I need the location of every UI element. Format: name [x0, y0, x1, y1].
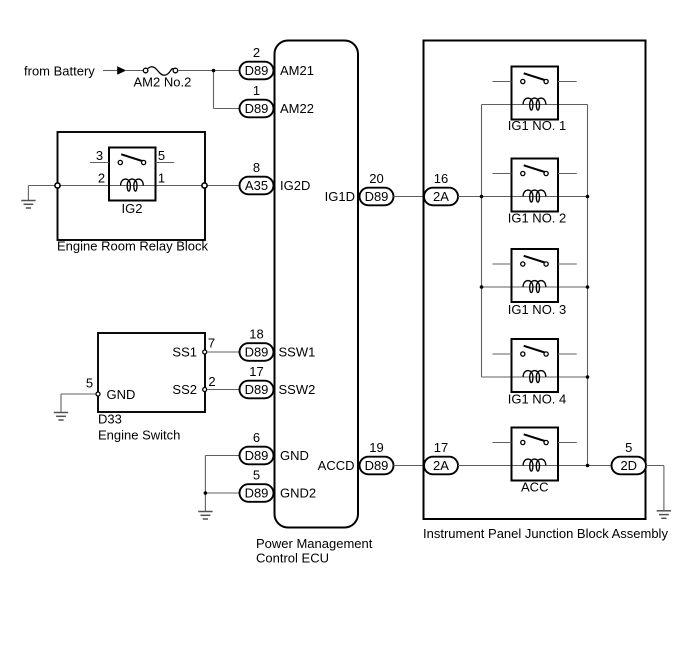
svg-text:IG1 NO. 3: IG1 NO. 3 — [508, 302, 567, 317]
wire: fuse to D89 pin2, branch to pin1 — [178, 71, 239, 109]
pin name labels inside ECU — [279, 63, 356, 501]
relay IG1 NO. 2: coil — [523, 190, 546, 202]
relay ACC: switch contacts and blade — [521, 434, 549, 444]
connector D89 pin 20 (IG1D) — [360, 171, 394, 205]
node: SS2 terminal, pin 2 — [203, 374, 216, 392]
svg-text:2A: 2A — [433, 458, 449, 473]
wire: IG1 NO. 2 switch stubs — [493, 173, 577, 175]
wire: IG1 NO. 4 switch stubs — [493, 353, 577, 355]
relay IG1 NO. 2: switch contacts and blade — [521, 165, 549, 175]
labels inside engine switch — [107, 345, 198, 403]
relay IG1 NO. 4: switch contacts and blade — [521, 346, 549, 356]
svg-text:Engine Switch: Engine Switch — [98, 428, 180, 443]
svg-text:D89: D89 — [245, 448, 269, 463]
block: Instrument Panel Junction Block Assembly — [423, 41, 668, 542]
svg-text:2D: 2D — [620, 458, 637, 473]
fuse AM2 No.2 — [143, 67, 177, 75]
connector D89 pin 5 (GND2) — [240, 468, 274, 502]
svg-text:GND2: GND2 — [280, 486, 316, 501]
svg-text:SSW1: SSW1 — [279, 345, 316, 360]
relay IG1 NO. 3: coil — [523, 281, 546, 293]
svg-text:ACCD: ACCD — [318, 458, 355, 473]
relay IG1 NO. 4: coil — [523, 371, 546, 383]
svg-text:IG2: IG2 — [122, 201, 143, 216]
wire: SS1 to D89 pin 18 — [207, 351, 239, 353]
svg-text:2: 2 — [253, 45, 260, 60]
wire: battery feed with arrow — [103, 66, 143, 75]
wire: ACC switch stubs — [493, 442, 577, 444]
svg-text:D89: D89 — [245, 486, 269, 501]
svg-text:IG1 NO. 1: IG1 NO. 1 — [508, 118, 567, 133]
wire: ACCD to 2A — [394, 465, 425, 467]
svg-text:SS2: SS2 — [172, 382, 197, 397]
wire: IG1 NO.2 coil row — [458, 196, 588, 198]
svg-text:GND: GND — [107, 387, 136, 402]
node: junction — [212, 69, 216, 73]
svg-text:IG1D: IG1D — [325, 189, 355, 204]
svg-text:D89: D89 — [245, 382, 269, 397]
wire: IG1D to 2A — [394, 196, 425, 198]
label IG2 and pin numbers 3 5 2 1 — [96, 148, 165, 216]
svg-text:5: 5 — [158, 148, 165, 163]
svg-text:IG1 NO. 4: IG1 NO. 4 — [508, 392, 567, 407]
node: relay block left terminal — [55, 183, 60, 188]
svg-text:2: 2 — [208, 374, 215, 389]
connector D89 pin 2 (AM21) — [240, 45, 274, 79]
wire: IG2 switch stubs — [90, 162, 174, 164]
node: GND terminal, pin 5 — [86, 376, 100, 397]
svg-text:2: 2 — [98, 171, 105, 186]
wire: IG1 coil bus (left) — [481, 105, 483, 378]
svg-text:D89: D89 — [245, 63, 269, 78]
svg-text:Instrument Panel Junction Bloc: Instrument Panel Junction Block Assembly — [423, 526, 668, 541]
connector 2A pin 17 — [424, 440, 458, 474]
block: Engine Room Relay Block — [57, 132, 209, 254]
svg-text:IG1 NO. 2: IG1 NO. 2 — [508, 211, 567, 226]
svg-text:19: 19 — [369, 440, 383, 455]
connector A35 pin 8 (IG2D) — [240, 160, 274, 194]
wire: 2D to ground — [646, 465, 664, 467]
relay IG1 NO. 1: coil — [523, 98, 546, 110]
relay IG1 NO. 1: case — [512, 67, 559, 120]
svg-text:5: 5 — [86, 376, 93, 391]
wire: SS2 to D89 pin 17 — [207, 389, 239, 391]
svg-text:D33: D33 — [98, 412, 122, 427]
svg-text:D89: D89 — [245, 101, 269, 116]
connector D89 pin 1 (AM22) — [240, 83, 274, 117]
svg-text:20: 20 — [369, 171, 383, 186]
svg-text:SSW2: SSW2 — [279, 382, 316, 397]
connector D89 pin 6 (GND) — [240, 430, 274, 464]
wire: coil bus (right) to 2D — [587, 105, 589, 466]
svg-text:D89: D89 — [245, 345, 269, 360]
svg-text:7: 7 — [208, 336, 215, 351]
svg-text:GND: GND — [280, 448, 309, 463]
wire: IG1 NO. 3 switch stubs — [493, 263, 577, 265]
svg-text:Power Management: Power Management — [256, 536, 373, 551]
svg-text:1: 1 — [158, 171, 165, 186]
node: SS1 terminal, pin 7 — [203, 336, 215, 355]
connector D89 pin 18 (SSW1) — [240, 327, 274, 361]
wire: ground to relay block — [28, 185, 57, 187]
svg-text:D89: D89 — [365, 458, 389, 473]
relay ACC: coil — [523, 459, 546, 471]
ground (ECU) — [198, 512, 212, 520]
svg-text:1: 1 — [253, 83, 260, 98]
wire: IG1 NO.4 coil row — [482, 376, 588, 378]
ground (engine room relay block) — [21, 186, 35, 209]
wire: GND / GND2 to ground — [205, 456, 239, 512]
wire: IG1 NO. 1 switch stubs — [493, 81, 577, 83]
svg-text:18: 18 — [249, 327, 263, 342]
node: bus junctions — [480, 195, 590, 468]
wire: GND to ground — [61, 393, 95, 395]
relay ACC: case — [512, 428, 559, 481]
wire: ACC coil row — [458, 465, 612, 467]
connector D89 pin 17 (SSW2) — [240, 364, 274, 398]
svg-text:AM22: AM22 — [280, 101, 314, 116]
svg-text:3: 3 — [96, 148, 103, 163]
svg-text:Engine Room Relay Block: Engine Room Relay Block — [57, 239, 209, 254]
svg-text:D89: D89 — [365, 189, 389, 204]
svg-text:AM2 No.2: AM2 No.2 — [134, 75, 192, 90]
block: Engine Switch D33 — [98, 333, 205, 443]
svg-text:5: 5 — [253, 468, 260, 483]
wire: IG1 NO.3 coil row — [482, 286, 588, 288]
svg-text:Control ECU: Control ECU — [256, 551, 329, 566]
relay IG2: case — [109, 148, 156, 201]
connector 2D pin 5 — [612, 440, 647, 474]
relay IG1 NO. 3: switch contacts and blade — [521, 256, 549, 266]
svg-text:A35: A35 — [245, 178, 268, 193]
ground (engine switch) — [54, 394, 68, 420]
connector D89 pin 19 (ACCD) — [360, 440, 394, 474]
svg-text:IG2D: IG2D — [280, 178, 310, 193]
node: junction — [204, 491, 208, 495]
svg-text:17: 17 — [249, 364, 263, 379]
ECU: Power Management Control ECU case — [256, 41, 373, 566]
svg-text:5: 5 — [625, 440, 632, 455]
svg-text:AM21: AM21 — [280, 63, 314, 78]
svg-text:ACC: ACC — [521, 480, 548, 495]
relay IG1 NO. 2: case — [512, 159, 559, 212]
wire: IG1 NO.1 coil row — [482, 104, 588, 106]
relay IG1 NO. 3: case — [512, 249, 559, 302]
relay IG1 NO. 4: case — [512, 339, 559, 392]
connector 2A pin 16 — [424, 171, 458, 205]
svg-text:SS1: SS1 — [172, 345, 197, 360]
svg-text:6: 6 — [253, 430, 260, 445]
svg-text:17: 17 — [434, 440, 448, 455]
wire: IG2 coil feed line — [58, 185, 240, 187]
svg-text:8: 8 — [253, 160, 260, 175]
node: relay block right terminal — [202, 183, 207, 188]
ground (junction block output) — [657, 466, 671, 519]
relay IG2: coil — [121, 179, 144, 191]
svg-text:from Battery: from Battery — [24, 64, 95, 79]
relay IG2: switch contacts and blade — [118, 154, 145, 164]
svg-text:16: 16 — [434, 171, 448, 186]
svg-text:2A: 2A — [433, 189, 449, 204]
relay IG1 NO. 1: switch contacts and blade — [521, 73, 549, 83]
